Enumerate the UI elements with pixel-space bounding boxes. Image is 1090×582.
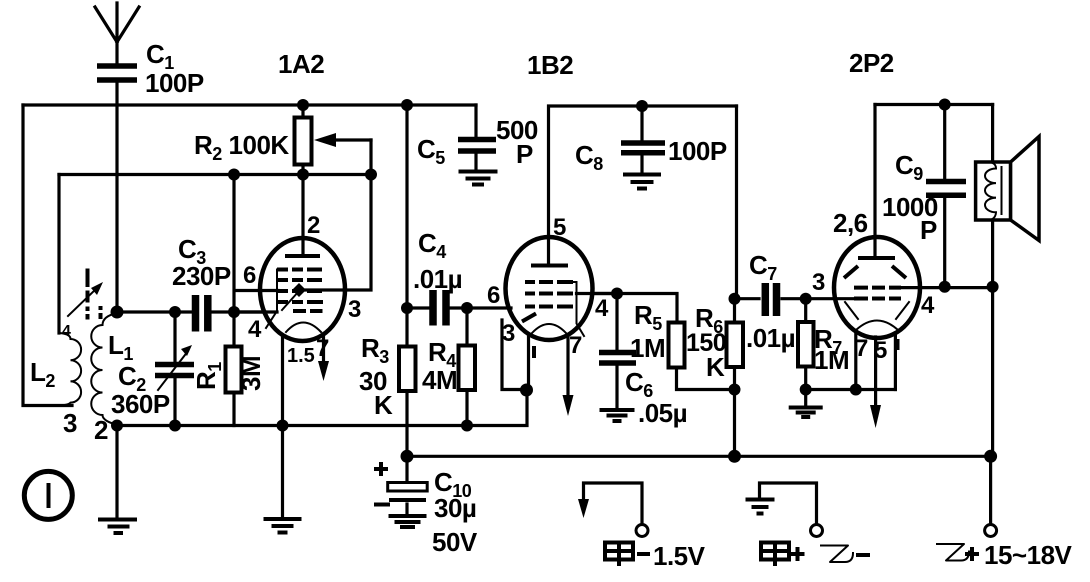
2P2 pin 5 arrow <box>870 337 881 428</box>
2P2 anode plate <box>858 256 895 260</box>
capacitor C5 <box>417 105 538 169</box>
2P2 beam dashes <box>844 266 906 278</box>
1B2 pin 3 bracket wire <box>502 320 527 390</box>
1A2 pointer diamond pin 3 <box>282 283 344 310</box>
capacitor C7 <box>735 250 857 353</box>
ground (C5) <box>459 172 498 185</box>
svg-text:.05µ: .05µ <box>638 398 687 428</box>
svg-text:15~18V: 15~18V <box>984 540 1073 570</box>
ground (C6) <box>600 410 635 421</box>
svg-text:1.5: 1.5 <box>287 345 315 367</box>
capacitor C1 <box>97 39 204 98</box>
1B2 grid rows <box>525 282 573 307</box>
1A2 filament lead to ground <box>281 335 284 519</box>
tube 1B2 envelope <box>506 237 593 340</box>
B+ bus wire <box>407 455 991 458</box>
battery terminal A- (1.5V) <box>578 483 648 537</box>
svg-text:K: K <box>374 390 393 420</box>
dot R5/R6 bottom <box>729 384 741 396</box>
ground (C10) <box>389 516 427 527</box>
wire node1 to C3 <box>117 310 191 313</box>
dot R7 bottom <box>800 384 812 396</box>
resistor R3 <box>359 105 416 456</box>
capacitor C6 <box>599 294 687 429</box>
label 甲-1.5V <box>605 541 706 571</box>
wire top rail W1 <box>23 103 476 106</box>
dot 1A2 filament at bus <box>277 420 289 432</box>
svg-text:3: 3 <box>63 408 77 438</box>
wire grid vertical V4 <box>234 175 278 313</box>
1A2 pin 7 arrow <box>318 334 329 381</box>
svg-text:3: 3 <box>812 269 825 296</box>
svg-text:2,6: 2,6 <box>833 208 868 238</box>
1A2 grid rows <box>277 270 323 312</box>
dot R7 top <box>800 293 812 305</box>
coil L2 <box>23 333 81 406</box>
filament bus wire <box>117 390 527 426</box>
svg-text:2P2: 2P2 <box>849 48 894 78</box>
1B2 grid bracket right <box>573 282 584 336</box>
ground (1A2 filament) <box>264 519 302 533</box>
svg-text:30µ: 30µ <box>434 493 476 523</box>
1A2 grid bracket <box>266 270 277 329</box>
svg-text:2: 2 <box>94 415 108 445</box>
svg-text:3: 3 <box>348 296 361 323</box>
resistor R6 <box>686 299 743 390</box>
2P2 filament dome <box>856 321 898 331</box>
wire C4 node left <box>407 306 429 309</box>
junction dots W1 <box>297 99 309 111</box>
1A2 anode plate <box>285 254 320 258</box>
svg-text:1M: 1M <box>630 333 665 363</box>
1B2 pin 4 wire <box>577 292 618 295</box>
battery terminal A+B- <box>746 483 823 537</box>
svg-text:1A2: 1A2 <box>278 49 324 79</box>
ground (R7) <box>789 390 823 418</box>
1A2 pin 2 lead <box>301 175 304 254</box>
svg-text:1B2: 1B2 <box>527 50 573 80</box>
svg-text:1.5V: 1.5V <box>653 541 706 571</box>
svg-text:3: 3 <box>502 320 515 347</box>
svg-text:4: 4 <box>921 292 935 319</box>
svg-text:4: 4 <box>595 295 609 322</box>
wire top rail W2 <box>549 106 737 262</box>
circled figure number 1 <box>24 471 72 519</box>
junction dots wire B <box>228 169 240 181</box>
capacitor C3 <box>172 234 231 332</box>
tube 1A2 envelope <box>260 238 345 341</box>
dot R4 at bus <box>461 420 473 432</box>
svg-text:P: P <box>920 215 937 245</box>
2P2 pin 4 wire <box>901 286 993 289</box>
C2 top dot <box>169 306 181 318</box>
wire top rail W4 <box>875 103 993 106</box>
wire 2P2 output down to B+ bus <box>991 287 994 457</box>
1A2 filament dome <box>286 323 321 333</box>
coil L1 <box>91 313 117 425</box>
svg-text:100P: 100P <box>668 136 727 166</box>
wire 1B2 pin4 node <box>592 294 677 323</box>
speaker horn <box>1011 137 1039 241</box>
C2 bottom dot <box>169 420 181 432</box>
1B2 filament dome <box>532 324 566 333</box>
1B2 pin 1 lead <box>527 334 530 390</box>
resistor R2 <box>194 105 312 175</box>
svg-text:360P: 360P <box>111 389 170 419</box>
wire C3 to grid node <box>212 310 277 313</box>
2P2 pin 2,6 lead <box>873 105 876 256</box>
tube 2P2 envelope <box>834 237 920 338</box>
svg-text:4: 4 <box>248 316 262 343</box>
svg-text:5: 5 <box>553 214 566 241</box>
1A2 signal grid wire pin 4 <box>234 310 265 313</box>
svg-text:R2 100K: R2 100K <box>194 130 289 164</box>
antenna <box>95 3 139 310</box>
ground (node 2) <box>98 426 137 534</box>
node 2 dot <box>111 420 123 432</box>
resistor R1 <box>191 312 266 426</box>
svg-text:.01µ: .01µ <box>413 264 462 294</box>
label 甲+ 乙- <box>761 543 870 567</box>
wire W2 drop to C7 node <box>735 106 738 299</box>
1B2 filament dash <box>522 314 536 322</box>
output transformer <box>976 105 1011 287</box>
svg-text:230P: 230P <box>172 261 231 291</box>
capacitor C4 <box>413 228 462 326</box>
wire C4 to 1B2 grid pin 6 <box>450 306 511 309</box>
svg-text:6: 6 <box>487 282 500 309</box>
svg-text:50V: 50V <box>432 527 478 557</box>
2P2 grid rows <box>854 288 901 299</box>
capacitor C8 <box>575 106 727 174</box>
svg-text:2: 2 <box>307 212 320 239</box>
1B2 pin 7 arrow <box>563 335 574 416</box>
wire left vertical to L2 bottom <box>23 105 72 406</box>
2P2 pin 1 lead <box>894 333 897 390</box>
wire R7 to 2P2 filament <box>806 388 896 391</box>
node 1 <box>111 306 124 319</box>
battery terminal B+ <box>985 456 997 536</box>
2P2 pin 7 lead <box>854 332 857 390</box>
electrolytic capacitor C10 <box>374 456 478 557</box>
node C3/R1 <box>228 306 240 318</box>
capacitor C9 <box>882 105 966 287</box>
svg-text:3M: 3M <box>236 356 266 391</box>
label 1 (L1 top terminal) <box>99 306 103 319</box>
ferrite rod antenna symbol <box>62 269 103 341</box>
svg-text:.01µ: .01µ <box>746 323 795 353</box>
1B2 anode plate <box>531 264 568 268</box>
wire B horizontal <box>59 173 371 176</box>
label 乙+ 15~18V <box>937 540 1073 570</box>
resistor R7 <box>798 299 849 390</box>
resistor R5 <box>630 300 735 390</box>
wire plate V3 <box>344 140 371 290</box>
svg-text:4M: 4M <box>422 365 457 395</box>
svg-text:100P: 100P <box>145 68 204 98</box>
wire R6 node down to B+ bus <box>733 390 736 457</box>
svg-text:6: 6 <box>243 262 256 289</box>
resistor R4 <box>422 308 475 426</box>
2P2 taper lines <box>845 302 909 319</box>
wire V2 to L2 top <box>57 175 60 334</box>
ground (C8) <box>623 175 661 189</box>
svg-text:7: 7 <box>569 332 582 359</box>
variable capacitor C2 <box>111 312 194 426</box>
R2 wiper arrow <box>314 133 371 147</box>
svg-text:P: P <box>516 139 533 169</box>
svg-text:K: K <box>706 352 725 382</box>
svg-text:1M: 1M <box>814 345 849 375</box>
